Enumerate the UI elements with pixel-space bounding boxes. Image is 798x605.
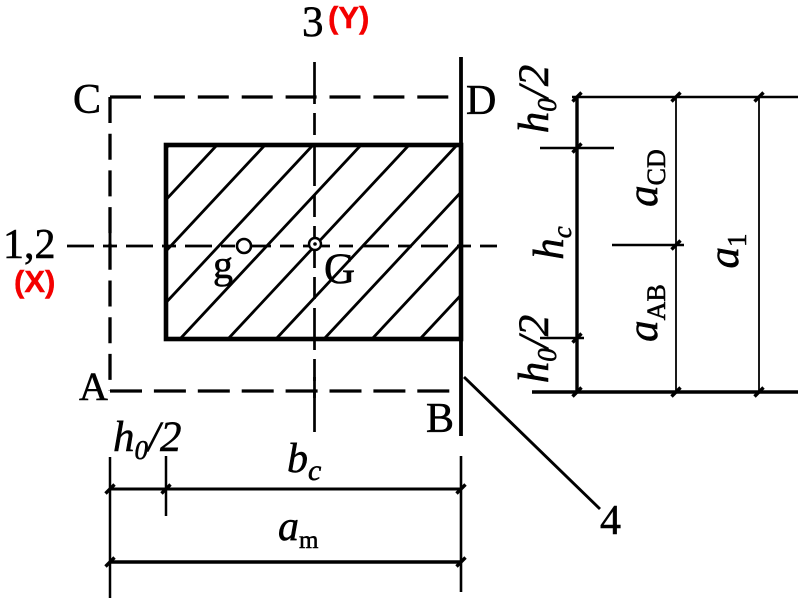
right dims: top line [572,96,798,99]
critical perimeter dashed bottom edge A-B [110,389,461,392]
bottom dims: extension line column face [165,456,168,516]
right dim line 3 (a1) [758,97,760,392]
right dim ticks [573,93,764,397]
svg-text:h0/2: h0/2 [511,65,562,133]
critical perimeter dashed left edge C-A [108,97,111,391]
svg-text:D: D [466,78,496,124]
svg-text:g: g [213,242,233,287]
svg-text:(X): (X) [14,264,55,299]
right dims: tick line at axis level [612,244,684,247]
centerline axis 3 (Y) vertical [313,62,316,436]
bottom dims: extension line right [460,456,463,592]
column section outline [166,145,461,339]
right dims: tick line at column top [540,147,614,150]
crossing dash at bottom perimeter [313,377,316,398]
svg-text:C: C [73,77,101,123]
right dims: tick line at column bottom [540,337,584,340]
right dim line 2 (aCD, aAB) [675,97,677,392]
right dim line 1 (h0/2, hc, h0/2) [575,97,578,392]
centroid g circle [237,239,251,253]
svg-text:A: A [79,364,108,409]
svg-text:aCD: aCD [620,149,671,207]
svg-text:G: G [324,246,355,293]
slab free edge line 4 [459,57,463,436]
svg-text:B: B [426,396,454,442]
svg-text:a1: a1 [701,234,752,269]
svg-text:h0/2: h0/2 [113,414,181,465]
column section hatch [0,145,601,339]
svg-text:bc: bc [287,436,321,487]
svg-text:4: 4 [600,498,621,544]
svg-text:h0/2: h0/2 [511,315,562,383]
bottom dim ticks [106,485,466,567]
centerline axis 1,2 (X) horizontal [67,245,497,248]
svg-text:hc: hc [526,226,577,260]
right dims: bottom line [532,390,798,393]
bottom dim line 1 (h0/2, bc) [110,488,461,491]
svg-text:1,2: 1,2 [3,222,56,268]
crossing dash at left perimeter on X axis [109,230,112,264]
bottom dim line 2 (am) [110,560,461,563]
svg-text:(Y): (Y) [328,0,369,35]
svg-text:aAB: aAB [620,284,671,342]
critical perimeter dashed top edge C-D [110,95,461,98]
centroid G circle [309,238,321,250]
svg-text:am: am [278,504,319,554]
bottom dims: extension line left [109,457,112,598]
leader line to 4 [464,377,600,509]
svg-text:3: 3 [302,0,324,46]
